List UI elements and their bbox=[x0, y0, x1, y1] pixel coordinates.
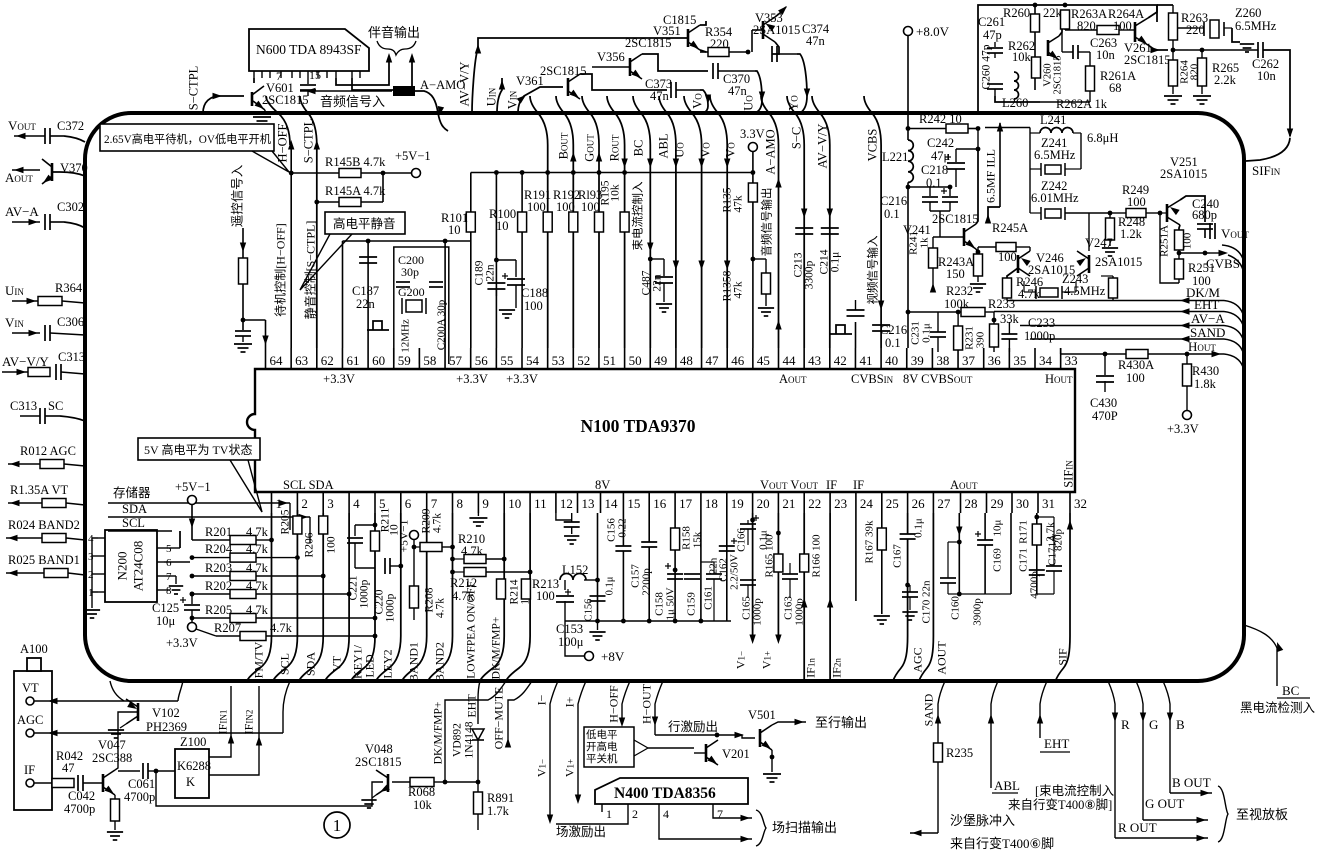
svg-text:C216: C216 bbox=[880, 194, 907, 208]
wire SAND edge curve bbox=[1224, 339, 1243, 352]
svg-text:AV−V/Y: AV−V/Y bbox=[458, 61, 472, 106]
svg-text:N400 TDA8356: N400 TDA8356 bbox=[614, 785, 716, 802]
wire H-OUT to V201 bbox=[655, 734, 717, 736]
svg-text:10k: 10k bbox=[610, 184, 622, 202]
svg-text:12MHz: 12MHz bbox=[400, 319, 412, 353]
svg-text:V351: V351 bbox=[653, 24, 681, 38]
capacitor C214 bbox=[821, 227, 839, 229]
svg-text:R145A 4.7k: R145A 4.7k bbox=[325, 184, 386, 198]
resistor R205 on pin2 bbox=[293, 516, 302, 534]
svg-text:58: 58 bbox=[423, 353, 436, 368]
wire pin61 vertical bbox=[342, 241, 344, 348]
svg-text:BAND1: BAND1 bbox=[407, 642, 421, 682]
svg-text:至行输出: 至行输出 bbox=[815, 715, 867, 730]
wire C374 to Yo entry bbox=[797, 54, 807, 113]
svg-text:2SC1815: 2SC1815 bbox=[932, 212, 979, 226]
svg-text:0.1: 0.1 bbox=[926, 176, 942, 190]
svg-text:SCL SDA: SCL SDA bbox=[283, 478, 334, 492]
svg-text:23: 23 bbox=[834, 496, 847, 511]
wire SIFin entry at right edge bbox=[1246, 138, 1290, 161]
resistor R243A bbox=[977, 247, 979, 254]
svg-text:R025 BAND1: R025 BAND1 bbox=[8, 553, 80, 567]
wire AV-V/Y arrow bbox=[2, 371, 28, 373]
svg-text:+3.3V: +3.3V bbox=[323, 372, 355, 386]
svg-text:C306: C306 bbox=[57, 315, 84, 329]
svg-text:4.7k: 4.7k bbox=[270, 621, 293, 635]
wire S-CTPL to V601 base bbox=[203, 96, 244, 113]
svg-text:AGC: AGC bbox=[911, 647, 925, 672]
svg-text:0.22: 0.22 bbox=[617, 518, 629, 537]
svg-text:B OUT: B OUT bbox=[1172, 775, 1211, 790]
svg-text:21: 21 bbox=[782, 496, 795, 511]
svg-text:+5V−1: +5V−1 bbox=[395, 149, 431, 163]
capacitor C221 bbox=[373, 523, 378, 528]
capacitor C200A bbox=[429, 281, 443, 283]
svg-text:+3.3V: +3.3V bbox=[506, 372, 538, 386]
wire V501 collector to output bbox=[772, 722, 806, 725]
wire C216 C218 branch bbox=[908, 186, 950, 188]
terminal AGC bbox=[26, 729, 34, 737]
capacitor Vout coupling bbox=[1209, 223, 1211, 239]
svg-text:18: 18 bbox=[705, 496, 718, 511]
svg-text:31: 31 bbox=[1042, 496, 1055, 511]
wire V102 collector link bbox=[124, 699, 126, 701]
svg-text:22k: 22k bbox=[1043, 6, 1063, 20]
svg-text:[束电流控制入: [束电流控制入 bbox=[1035, 784, 1115, 798]
svg-text:CVBSIN: CVBSIN bbox=[851, 372, 894, 386]
svg-text:R262A 1k: R262A 1k bbox=[1056, 97, 1108, 111]
svg-text:IF1n: IF1n bbox=[804, 658, 818, 678]
wire N400 pin4 down bbox=[659, 812, 752, 839]
wire pin18 bbox=[700, 513, 702, 621]
svg-text:57: 57 bbox=[449, 353, 463, 368]
svg-text:G200: G200 bbox=[398, 285, 425, 299]
svg-text:IFIN1: IFIN1 bbox=[216, 710, 230, 735]
svg-text:VT: VT bbox=[22, 681, 39, 695]
svg-text:FM/TV: FM/TV bbox=[252, 641, 266, 678]
svg-text:12: 12 bbox=[560, 496, 573, 511]
terminal IF bbox=[26, 779, 34, 787]
svg-text:13: 13 bbox=[582, 496, 595, 511]
wire V241 emitter to R243A rail bbox=[976, 249, 978, 252]
capacitor C240 bbox=[1197, 223, 1213, 225]
wire HOUT line from pin33 bbox=[1060, 348, 1062, 354]
wire SDA arrow line bbox=[108, 516, 310, 518]
svg-text:存储器: 存储器 bbox=[113, 485, 151, 500]
resistor R251A bbox=[1175, 230, 1184, 250]
capacitor C260b bbox=[987, 83, 1003, 85]
wire C153 to +8V bbox=[565, 652, 584, 656]
capacitor C158 electrolytic bbox=[673, 568, 678, 573]
resistor R100 bbox=[518, 212, 527, 232]
svg-text:BAND2: BAND2 bbox=[433, 642, 447, 682]
svg-text:R233: R233 bbox=[988, 297, 1015, 311]
svg-text:47: 47 bbox=[62, 761, 75, 775]
wire pin59 into box bbox=[393, 348, 395, 364]
wire pin32 SIF bbox=[1056, 513, 1071, 681]
ground V102 bbox=[120, 724, 126, 728]
svg-text:C160: C160 bbox=[950, 596, 962, 620]
svg-text:R207: R207 bbox=[214, 621, 241, 635]
svg-text:2.65V高电平待机，OV低电平开机: 2.65V高电平待机，OV低电平开机 bbox=[104, 132, 271, 146]
svg-text:3900p: 3900p bbox=[972, 598, 984, 626]
svg-text:2.2/50V: 2.2/50V bbox=[729, 554, 741, 590]
resistor R135 bbox=[748, 183, 757, 202]
svg-text:100: 100 bbox=[581, 200, 600, 214]
wire R025 arrow bbox=[6, 572, 44, 574]
wire pin4 VT bbox=[325, 513, 349, 681]
wire pin44 A-AMO column bbox=[761, 96, 779, 348]
svg-text:4.7k: 4.7k bbox=[246, 561, 269, 575]
svg-text:Z100: Z100 bbox=[180, 735, 206, 749]
wire pin19 bbox=[726, 513, 728, 621]
callout box 5V high level TV state bbox=[138, 438, 260, 460]
svg-text:10n: 10n bbox=[1257, 69, 1277, 83]
svg-text:A100: A100 bbox=[20, 642, 48, 656]
svg-text:47: 47 bbox=[706, 353, 720, 368]
capacitor C260 (left column) bbox=[994, 42, 996, 47]
N600 pin stubs bbox=[253, 71, 255, 78]
ceramic resonator Z242 bbox=[1045, 209, 1061, 218]
callout box 低电平开高电平关机 bbox=[584, 727, 634, 767]
svg-text:L241: L241 bbox=[1040, 113, 1066, 127]
svg-text:GOUT: GOUT bbox=[583, 134, 597, 162]
wire pin22 IF1n bbox=[803, 513, 805, 681]
wire N600 pin7 to V601 collector bbox=[253, 78, 255, 83]
svg-text:22n: 22n bbox=[356, 297, 376, 311]
mute rail horizontal bbox=[343, 240, 471, 242]
svg-text:+8V: +8V bbox=[601, 649, 625, 664]
wire B OUT arrow bbox=[1170, 792, 1212, 794]
resistor R430A bbox=[1126, 350, 1148, 359]
svg-text:54: 54 bbox=[526, 353, 540, 368]
supply rail 173 right part bbox=[471, 172, 753, 174]
svg-text:42: 42 bbox=[834, 353, 847, 368]
wire CVBS line bbox=[1179, 252, 1210, 254]
capacitor C156a bbox=[590, 595, 606, 597]
ceramic filter Z260 bbox=[1177, 27, 1196, 29]
svg-text:C161: C161 bbox=[703, 586, 715, 610]
wire V246 emitter to R246 bbox=[1007, 268, 1018, 280]
capacitor C601 under N600 pin15 bbox=[307, 78, 309, 84]
svg-text:束电流控制入: 束电流控制入 bbox=[631, 181, 645, 250]
wire pin16 bbox=[648, 513, 650, 542]
svg-text:51: 51 bbox=[603, 353, 616, 368]
wire pin5 KEY1/LED bbox=[351, 513, 375, 681]
wire remote node to pin64 bbox=[243, 319, 266, 321]
brace under 伴音输出 bbox=[377, 41, 416, 55]
svg-text:1000p: 1000p bbox=[359, 579, 371, 608]
wire SDA line to N200 bbox=[85, 508, 295, 530]
svg-text:SDA: SDA bbox=[122, 502, 147, 516]
svg-text:IFIN2: IFIN2 bbox=[242, 710, 256, 735]
svg-text:场激励出: 场激励出 bbox=[556, 825, 606, 839]
wire V353 emitter to C374 bbox=[772, 42, 779, 54]
svg-text:R891: R891 bbox=[487, 791, 514, 805]
wire V047 collector up bbox=[115, 712, 138, 770]
transistor V261 bbox=[1134, 22, 1137, 42]
svg-text:R204: R204 bbox=[205, 542, 233, 556]
wire EHT column below edge bbox=[478, 681, 480, 724]
wire audio line A-AMO to N600 bbox=[300, 90, 392, 92]
svg-text:C159: C159 bbox=[686, 592, 698, 616]
wire pin63 vertical bbox=[290, 148, 292, 348]
svg-text:10k: 10k bbox=[1012, 50, 1032, 64]
transistor V356 bbox=[629, 58, 632, 76]
wire V246 base bbox=[1029, 247, 1031, 251]
svg-text:V201: V201 bbox=[722, 747, 750, 761]
svg-text:DK/M/FMP+: DK/M/FMP+ bbox=[491, 617, 503, 680]
svg-text:100μ: 100μ bbox=[558, 635, 584, 649]
IC N600 TDA8943SF body bbox=[249, 29, 369, 71]
resistor R1.35A bbox=[42, 499, 66, 508]
wire V201 to V501 base bbox=[717, 735, 755, 738]
resistor R209 bbox=[413, 539, 415, 547]
svg-text:6.5MHz: 6.5MHz bbox=[1235, 19, 1277, 33]
wire pin2 SCL bbox=[273, 510, 297, 681]
transistor V246 pnp bbox=[1017, 255, 1020, 273]
wire to R1358 bbox=[753, 258, 766, 260]
svg-text:16: 16 bbox=[653, 496, 667, 511]
IC N400 TDA8356 body bbox=[595, 778, 748, 804]
wire N200 pin5 right bbox=[164, 547, 180, 549]
resistor R242 bbox=[946, 124, 968, 133]
ceramic resonator Z241 bbox=[1045, 165, 1061, 174]
svg-text:43: 43 bbox=[808, 353, 821, 368]
brace 至视放板 bbox=[1218, 786, 1228, 842]
svg-text:R165 100: R165 100 bbox=[764, 534, 776, 578]
svg-text:10: 10 bbox=[496, 219, 509, 233]
resistor R264A bbox=[1064, 29, 1066, 30]
transistor V201 bbox=[705, 744, 708, 762]
svg-text:C242: C242 bbox=[927, 136, 954, 150]
svg-text:4.7k: 4.7k bbox=[432, 513, 444, 533]
svg-text:VO: VO bbox=[691, 93, 705, 109]
transistor V351 bbox=[687, 29, 690, 47]
svg-text:820p: 820p bbox=[1053, 529, 1065, 552]
wire N200 pin7 bbox=[164, 575, 176, 577]
capacitor C165 bbox=[740, 579, 756, 581]
svg-text:来自行变T400⑥脚: 来自行变T400⑥脚 bbox=[950, 836, 1054, 850]
wire pin64 vertical bbox=[265, 320, 267, 348]
svg-text:行激励出: 行激励出 bbox=[668, 720, 718, 734]
svg-text:AGC: AGC bbox=[17, 713, 43, 727]
svg-text:36: 36 bbox=[988, 353, 1002, 368]
svg-text:47k: 47k bbox=[733, 281, 745, 299]
svg-text:390: 390 bbox=[975, 331, 987, 348]
svg-text:C218: C218 bbox=[921, 163, 948, 177]
svg-text:G: G bbox=[1149, 717, 1158, 732]
resistor R205 ladder bbox=[190, 592, 195, 597]
svg-text:150: 150 bbox=[946, 267, 965, 281]
svg-text:R430: R430 bbox=[1192, 364, 1219, 378]
svg-text:C170 22n: C170 22n bbox=[921, 580, 933, 624]
svg-text:100: 100 bbox=[527, 200, 546, 214]
svg-text:6.8μH: 6.8μH bbox=[1087, 131, 1118, 145]
wire C302 to edge bbox=[64, 222, 85, 228]
resistor R202 bbox=[190, 592, 195, 597]
capacitor C042 bbox=[77, 775, 79, 791]
IC N100 TDA9370 body bbox=[247, 369, 1075, 492]
svg-text:100: 100 bbox=[556, 200, 575, 214]
wire V370 to edge bbox=[52, 172, 85, 176]
resistor R192 bbox=[569, 212, 578, 232]
wire N200 pin6 bbox=[164, 561, 190, 563]
capacitor C372 bbox=[44, 128, 46, 144]
svg-text:4.7k: 4.7k bbox=[246, 525, 269, 539]
ground R264 bbox=[1164, 95, 1182, 97]
wire V361 collector to C373 line bbox=[580, 74, 667, 90]
wire V353 top bbox=[775, 7, 786, 17]
wire R135A arrow bbox=[8, 502, 42, 504]
wire pin29 bbox=[984, 513, 986, 540]
wire pin50 BC column bbox=[607, 96, 625, 348]
svg-text:R202: R202 bbox=[205, 579, 232, 593]
svg-text:820: 820 bbox=[1077, 19, 1096, 33]
resistor R203 bbox=[190, 574, 195, 579]
wire OFF-MUTE column bbox=[508, 681, 532, 745]
wire pin46 Vo column bbox=[710, 96, 727, 348]
svg-text:5: 5 bbox=[166, 543, 172, 555]
svg-text:R245A: R245A bbox=[992, 221, 1028, 235]
svg-text:PH2369: PH2369 bbox=[146, 720, 187, 734]
wire pin7 BAND1 bbox=[402, 513, 427, 681]
svg-text:1000p: 1000p bbox=[1024, 329, 1055, 343]
callout pointer 高电平静音 bbox=[300, 234, 352, 290]
wire pin21 V1+ bbox=[777, 513, 779, 640]
transistor V353 (pnp) bbox=[762, 21, 765, 39]
svg-text:R206: R206 bbox=[304, 532, 316, 557]
wire N200 pin8 bbox=[164, 589, 170, 591]
svg-text:C171: C171 bbox=[1018, 548, 1030, 572]
capacitor C313 bbox=[55, 364, 57, 380]
capacitor C216b bbox=[847, 309, 865, 311]
resistor R101 bbox=[466, 212, 475, 232]
svg-text:2SA1015: 2SA1015 bbox=[1160, 167, 1207, 181]
svg-text:高电平静音: 高电平静音 bbox=[333, 216, 396, 231]
capacitor C233 bbox=[1001, 333, 1017, 335]
callout pointer to pin63 bbox=[252, 151, 289, 172]
resistor R158 bbox=[671, 528, 680, 550]
dot rail R260 bbox=[1033, 3, 1038, 8]
svg-text:V1−: V1− bbox=[734, 651, 748, 669]
capacitor C159 bbox=[684, 573, 700, 575]
capacitor C306 bbox=[44, 325, 46, 341]
svg-text:6: 6 bbox=[166, 557, 172, 569]
svg-text:4.7k: 4.7k bbox=[1018, 287, 1041, 301]
capacitor C157 bbox=[641, 541, 657, 543]
capacitor C187 bbox=[359, 256, 377, 258]
wire pin10 LOWFPEA bbox=[480, 513, 504, 681]
svg-text:100: 100 bbox=[524, 299, 543, 313]
svg-text:N200: N200 bbox=[115, 552, 130, 581]
capacitor C487 bbox=[650, 258, 664, 260]
transistor V048 bbox=[387, 774, 390, 792]
svg-text:470P: 470P bbox=[1092, 409, 1118, 423]
capacitor C161 bbox=[706, 573, 722, 575]
svg-text:2SC1815: 2SC1815 bbox=[1124, 53, 1171, 67]
svg-text:VT: VT bbox=[330, 655, 344, 672]
resistor R214 bbox=[503, 578, 505, 580]
transistor V501 bbox=[759, 729, 762, 747]
resistor R248 bbox=[1109, 213, 1111, 218]
capacitor C169 electrolytic bbox=[977, 539, 993, 541]
wire V102 base bbox=[138, 711, 150, 713]
svg-text:R251: R251 bbox=[1188, 261, 1215, 275]
svg-text:R203: R203 bbox=[205, 561, 232, 575]
crystal box G200 bbox=[394, 247, 449, 364]
dot R430 bbox=[1185, 352, 1190, 357]
wire pin57 vertical bbox=[444, 241, 446, 348]
wire SAND bottom arrow bbox=[910, 832, 938, 834]
resistor R245A bbox=[978, 246, 996, 248]
wire V261 emitter to R264 node bbox=[1148, 45, 1168, 50]
wire VOUT hook bbox=[1222, 245, 1243, 259]
svg-text:4.7k: 4.7k bbox=[461, 544, 484, 558]
wire EHT column bbox=[1040, 681, 1047, 738]
wire feedback loop around R251 bbox=[1160, 213, 1179, 283]
resistor R212 bbox=[453, 571, 465, 573]
N400 pin stubs bbox=[601, 804, 603, 812]
svg-text:55: 55 bbox=[500, 353, 513, 368]
wire Vin arrow bbox=[12, 332, 40, 334]
dot L221 C216 node bbox=[906, 185, 911, 190]
wire pin37 vertical bbox=[957, 312, 959, 326]
svg-text:C125: C125 bbox=[152, 601, 179, 615]
svg-text:H−OUT: H−OUT bbox=[640, 683, 654, 724]
wire C372 to edge bbox=[64, 136, 85, 142]
ground R167 bbox=[874, 615, 890, 617]
resistor R167 bbox=[881, 513, 883, 528]
wire VD892 node to R068 node bbox=[445, 781, 478, 783]
svg-text:17: 17 bbox=[679, 496, 693, 511]
wire pin3 SDA bbox=[299, 513, 323, 681]
wire V251 emitter down bbox=[1179, 225, 1180, 230]
wire DK/M/FMP+ column below edge bbox=[445, 681, 506, 782]
N200 pin stubs left bbox=[98, 537, 105, 539]
transistor V241 bbox=[963, 228, 966, 246]
svg-text:45: 45 bbox=[757, 353, 770, 368]
svg-text:C153: C153 bbox=[556, 622, 583, 636]
svg-text:N100 TDA9370: N100 TDA9370 bbox=[581, 416, 696, 436]
wire Z100 out1 to IFin1 bbox=[209, 686, 231, 757]
wire pin15 bbox=[622, 513, 624, 546]
IC bottom pin row ticks and numbers bbox=[271, 492, 273, 513]
inductor L152 bbox=[564, 580, 566, 590]
resistor R145B bbox=[291, 172, 339, 174]
svg-text:C042: C042 bbox=[68, 789, 95, 803]
svg-text:4: 4 bbox=[88, 533, 94, 545]
svg-text:100: 100 bbox=[326, 536, 338, 554]
transistor V047 bbox=[102, 774, 105, 792]
wire V247 base to Z242 line bbox=[1088, 213, 1090, 251]
capacitor C216c bbox=[872, 324, 890, 326]
wire VOUT with arrow bbox=[14, 135, 45, 137]
svg-text:AOUT: AOUT bbox=[935, 641, 949, 675]
svg-text:C061: C061 bbox=[128, 777, 155, 791]
wire CVBS hook bbox=[1228, 255, 1243, 270]
wire AV-A edge curve bbox=[1224, 326, 1243, 340]
svg-text:49: 49 bbox=[654, 353, 667, 368]
resistor R247 bbox=[1109, 278, 1118, 298]
capacitor C263 bbox=[1072, 45, 1074, 59]
capacitor C430 bbox=[1104, 354, 1106, 375]
wire pin45 vertical bbox=[752, 151, 754, 183]
capacitor C156b bbox=[615, 545, 631, 547]
svg-text:220: 220 bbox=[1186, 23, 1205, 37]
svg-text:50: 50 bbox=[629, 353, 642, 368]
svg-text:37: 37 bbox=[962, 353, 976, 368]
